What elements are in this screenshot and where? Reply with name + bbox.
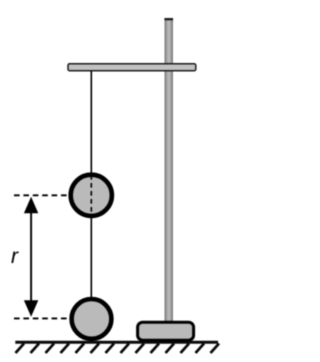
node: dashed reference line at upper ball centre [14, 194, 69, 196]
ground [15, 341, 218, 344]
pole top cap [164, 18, 173, 20]
wire (string between balls) [90, 216, 92, 298]
dimension arrow r (upper head) [24, 197, 38, 214]
dimension arrow r (shaft) [30, 208, 32, 306]
node: dashed reference line at lower ball centre [14, 317, 70, 319]
pole (vertical rod of stand) [165, 18, 173, 324]
wire (dashed string inside upper ball) [90, 175, 92, 216]
dimension arrow r (lower head) [24, 300, 38, 317]
horizontal bar (clamp arm) [68, 64, 196, 71]
svg-text:r: r [11, 245, 19, 268]
base of stand [138, 322, 194, 340]
lower ball [72, 299, 112, 339]
wire (string from bar to upper ball) [90, 71, 92, 175]
upper ball [71, 175, 112, 216]
